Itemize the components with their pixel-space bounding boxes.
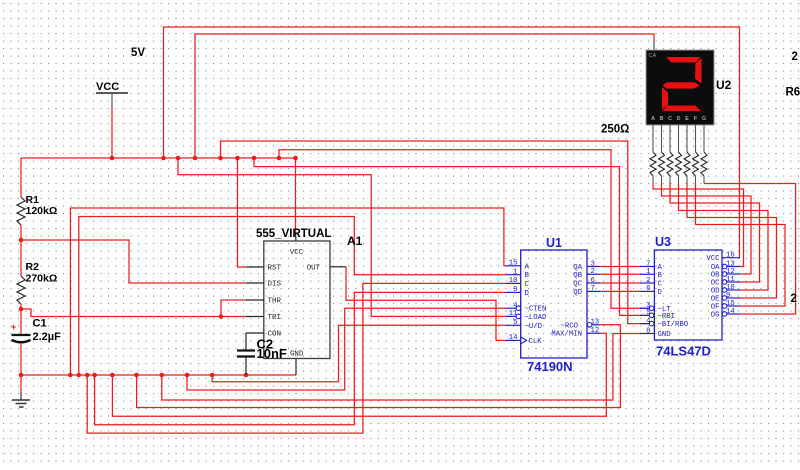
svg-text:DIS: DIS <box>268 281 282 289</box>
U3 pin 3 ~LT <box>640 307 649 309</box>
svg-text:4: 4 <box>646 317 651 325</box>
svg-text:5V: 5V <box>131 47 145 59</box>
wire R1 to R2 <box>20 225 22 276</box>
U3 pin 5 ~RBI <box>640 314 649 316</box>
wire ground to U1 pin 9 D <box>95 292 506 424</box>
U3 pin 16 VCC <box>722 257 740 259</box>
wire VCC to U3 pin 5 ~RBI <box>254 158 650 315</box>
555 pin RST <box>246 266 264 268</box>
svg-text:3: 3 <box>591 260 595 268</box>
svg-text:9: 9 <box>513 286 517 294</box>
555 pin TRI <box>246 316 264 318</box>
svg-text:14: 14 <box>509 334 518 342</box>
svg-text:2: 2 <box>791 293 797 305</box>
U1 pin 12 MAX/MIN <box>587 332 600 334</box>
svg-text:G: G <box>702 116 706 122</box>
U1 pin 3 QA <box>587 266 600 268</box>
svg-text:OG: OG <box>711 312 720 320</box>
node THR-TRI junction <box>219 314 224 319</box>
svg-text:~CTEN: ~CTEN <box>525 306 547 314</box>
junction dots on VCC rail <box>110 156 115 161</box>
svg-text:11: 11 <box>726 276 735 284</box>
svg-text:12: 12 <box>591 327 600 335</box>
svg-text:VCC: VCC <box>96 81 119 93</box>
op-amp A1 555_VIRTUAL box <box>264 241 330 359</box>
wire QC to U3 C <box>600 282 640 284</box>
wire ground to U1 pin 12 MAX/MIN <box>112 333 606 416</box>
junction dots on ground rail <box>19 373 24 378</box>
segment G lit <box>663 82 700 88</box>
wire segment F to U3 pin <box>696 184 786 307</box>
svg-text:R2: R2 <box>26 261 40 273</box>
svg-text:C1: C1 <box>33 318 47 330</box>
svg-text:MAX/MIN: MAX/MIN <box>551 331 582 339</box>
svg-text:GND: GND <box>658 331 672 339</box>
svg-text:7: 7 <box>591 285 595 293</box>
U3 pin 13 OA <box>727 266 740 268</box>
capacitor C2 <box>245 333 247 350</box>
display pin lead G <box>703 125 705 152</box>
svg-text:5: 5 <box>646 309 650 317</box>
U1 pin 6 QC <box>587 282 600 284</box>
svg-text:~BI/RBO: ~BI/RBO <box>658 321 689 329</box>
svg-text:~RBI: ~RBI <box>658 313 676 321</box>
segment D lit <box>663 106 702 112</box>
U3 pin 11 OC <box>727 281 740 283</box>
svg-text:R6: R6 <box>786 87 800 99</box>
U1 pin 14 CLK <box>506 339 521 341</box>
segment A lit <box>667 57 701 63</box>
svg-text:4: 4 <box>513 302 518 310</box>
svg-text:A1: A1 <box>347 234 363 248</box>
svg-text:QD: QD <box>573 289 582 297</box>
wire segment B to U3 pin <box>662 184 752 275</box>
svg-text:CLK: CLK <box>529 338 543 346</box>
svg-text:1: 1 <box>513 269 518 277</box>
555 pin DIS <box>246 282 264 284</box>
node VCC power rail <box>21 157 296 159</box>
node R1-R2 junction <box>19 238 24 243</box>
555 pin CON <box>246 332 264 334</box>
U1 pin 13 ~RCO <box>592 324 600 326</box>
svg-text:15: 15 <box>726 300 735 308</box>
U1 pin 15 A <box>506 265 521 267</box>
wire segment A to U3 pin <box>653 184 744 267</box>
wire ground to U1 pin 10 C <box>87 283 506 433</box>
svg-text:11: 11 <box>509 310 518 318</box>
svg-text:OF: OF <box>711 304 720 312</box>
svg-text:~U/D: ~U/D <box>525 323 543 331</box>
svg-text:A: A <box>525 263 530 271</box>
display pin lead B <box>661 125 663 152</box>
wire ground to U1 pin 4 ~CTEN <box>187 308 506 390</box>
svg-text:B: B <box>658 272 663 280</box>
segment E lit <box>662 87 668 110</box>
VCC symbol <box>96 92 128 94</box>
svg-text:~LOAD: ~LOAD <box>525 314 548 322</box>
op-amp U3 74LS47D box <box>654 250 722 340</box>
wire QB to U3 B <box>600 273 640 275</box>
svg-text:A: A <box>658 264 663 272</box>
svg-text:13: 13 <box>591 319 600 327</box>
U3 pin 15 OF <box>727 305 740 307</box>
svg-text:OC: OC <box>711 280 720 288</box>
svg-text:C: C <box>668 116 672 122</box>
display pin lead D <box>678 125 680 152</box>
svg-text:555_VIRTUAL: 555_VIRTUAL <box>256 228 331 240</box>
svg-text:C: C <box>658 281 663 289</box>
svg-text:+: + <box>11 322 16 332</box>
svg-text:120kΩ: 120kΩ <box>26 205 58 217</box>
svg-text:10: 10 <box>726 284 735 292</box>
svg-text:VCC: VCC <box>290 249 304 257</box>
transistor U1 74190N box <box>521 250 587 358</box>
svg-text:B: B <box>525 272 530 280</box>
wire VCC to U3 pin 4 ~BI/RBO <box>221 141 650 324</box>
wire QD to U3 D <box>600 290 640 292</box>
wire DIS tap <box>21 240 246 283</box>
wire VCC to 555 RST <box>238 158 246 267</box>
U1 pin 10 C <box>506 282 521 284</box>
U3 pin 10 OD <box>727 289 740 291</box>
svg-text:9: 9 <box>726 292 730 300</box>
wire segment E to U3 pin <box>687 184 777 299</box>
svg-text:OE: OE <box>711 296 720 304</box>
wire 5V to U3 VCC pin 16 <box>164 27 740 258</box>
node R2-C1 junction <box>19 307 24 312</box>
U1 pin 11 ~LOAD <box>506 315 516 317</box>
U3 pin 2 C <box>640 282 654 284</box>
resistor RB network <box>659 152 665 176</box>
svg-text:6: 6 <box>646 285 650 293</box>
segment B lit <box>695 58 702 84</box>
wire VCC to U1 pin 11 ~LOAD <box>178 158 506 316</box>
resistor RE network <box>684 152 690 176</box>
svg-text:OD: OD <box>711 288 720 296</box>
resistor RA network <box>650 152 656 176</box>
svg-text:2: 2 <box>792 51 798 63</box>
U1 pin 4 ~CTEN <box>506 307 516 309</box>
wire segment D to U3 pin <box>679 184 769 291</box>
svg-text:250Ω: 250Ω <box>601 124 629 136</box>
node ground rail <box>21 374 296 376</box>
svg-text:D: D <box>525 290 530 298</box>
wire VCC to display CA <box>195 34 654 158</box>
wire ground to U1 pin 5 ~U/D <box>212 325 506 382</box>
svg-text:~RCO: ~RCO <box>560 322 578 330</box>
wire VCC to U3 pin 3 ~LT <box>279 150 650 308</box>
resistor RG network <box>701 152 707 176</box>
svg-text:16: 16 <box>726 252 735 260</box>
svg-text:E: E <box>685 116 689 122</box>
555 pin THR <box>246 299 264 301</box>
wire segment G to U3 pin <box>704 184 796 315</box>
svg-text:B: B <box>660 116 664 122</box>
svg-text:12: 12 <box>726 268 735 276</box>
svg-text:15: 15 <box>509 260 518 268</box>
wire R2 to C1 <box>20 304 22 334</box>
svg-text:10nF: 10nF <box>257 346 287 361</box>
svg-text:2: 2 <box>646 277 650 285</box>
U1 pin 5 ~U/D <box>506 324 521 326</box>
display pin lead C <box>669 125 671 152</box>
svg-text:270kΩ: 270kΩ <box>26 272 58 284</box>
ground symbol <box>20 375 22 392</box>
wire ground to U3 pin 8 GND <box>162 334 641 401</box>
display pin lead E <box>686 125 688 152</box>
display pin lead A <box>652 125 654 152</box>
wire ground to U1 pin 13 ~RCO <box>137 325 621 408</box>
svg-text:OUT: OUT <box>307 264 321 272</box>
svg-text:8: 8 <box>646 327 650 335</box>
svg-text:U2: U2 <box>716 78 732 92</box>
wire ground to U1 pin 1 B <box>79 217 506 376</box>
U3 pin 7 A <box>640 266 654 268</box>
svg-text:VCC: VCC <box>706 255 720 263</box>
wire VCC rail to R1 <box>20 158 22 197</box>
wire QA to U3 A <box>600 266 640 268</box>
svg-text:OB: OB <box>711 272 720 280</box>
U3 pin 9 OE <box>727 297 740 299</box>
svg-text:6: 6 <box>591 277 595 285</box>
svg-text:2.2µF: 2.2µF <box>33 331 62 343</box>
svg-text:1: 1 <box>646 268 651 276</box>
wire THR branch <box>221 300 246 317</box>
U3 pin 4 ~BI/RBO <box>640 323 649 325</box>
svg-text:74LS47D: 74LS47D <box>656 344 711 359</box>
svg-text:A: A <box>651 116 655 122</box>
resistor R2 <box>17 276 25 304</box>
svg-text:GND: GND <box>290 351 304 359</box>
wire 555 OUT to U1 CLK <box>346 267 506 341</box>
wire VCC to 555 VCC pin <box>295 158 297 233</box>
svg-text:QC: QC <box>573 281 582 289</box>
wire segment C to U3 pin <box>670 184 760 283</box>
svg-text:RST: RST <box>268 265 282 273</box>
svg-text:QA: QA <box>573 264 582 272</box>
display pin lead F <box>695 125 697 152</box>
svg-text:7: 7 <box>646 260 650 268</box>
svg-text:TRI: TRI <box>268 314 282 322</box>
resistor RD network <box>676 152 682 176</box>
svg-text:14: 14 <box>726 308 735 316</box>
U3 pin 12 OB <box>727 273 740 275</box>
svg-text:QB: QB <box>573 272 582 280</box>
svg-text:U1: U1 <box>546 236 562 250</box>
U1 pin 9 D <box>506 291 521 293</box>
U1 pin 7 QD <box>587 290 600 292</box>
U3 pin 8 GND <box>640 333 654 335</box>
U1 pin 2 QB <box>587 273 600 275</box>
resistor RC network <box>667 152 673 176</box>
svg-text:5: 5 <box>513 319 517 327</box>
svg-text:74190N: 74190N <box>527 359 573 374</box>
svg-text:2: 2 <box>591 268 595 276</box>
svg-text:D: D <box>658 289 663 297</box>
resistor R1 <box>17 197 25 225</box>
U3 pin 1 B <box>640 273 654 275</box>
555 pin OUT <box>330 266 346 268</box>
svg-text:D: D <box>677 116 681 122</box>
wire ground to U1 pin 15 A <box>70 208 506 375</box>
display U2 seven segment <box>646 50 714 125</box>
svg-text:C: C <box>525 281 530 289</box>
svg-text:THR: THR <box>268 298 282 306</box>
wire C1 to ground rail <box>20 343 22 375</box>
wire THR TRI tap <box>21 309 246 317</box>
U3 pin 14 OG <box>727 313 740 315</box>
U1 pin 1 B <box>506 274 521 276</box>
resistor RF network <box>693 152 699 176</box>
svg-text:10: 10 <box>509 277 518 285</box>
capacitor C1 polarized <box>12 334 31 336</box>
U3 pin 6 D <box>640 290 654 292</box>
svg-text:U3: U3 <box>655 235 671 249</box>
svg-text:CA: CA <box>649 53 657 59</box>
